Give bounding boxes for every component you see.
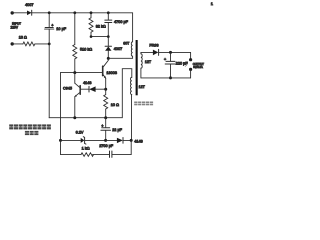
node C5 bottom: [169, 76, 172, 79]
node junction R1 top: [90, 11, 93, 14]
svg-text:510 kΩ: 510 kΩ: [80, 48, 92, 52]
capacitor C4 2700pF drive: [110, 140, 132, 157]
diode D2 1N4007 clamp: [105, 37, 111, 59]
svg-text:+: +: [164, 58, 166, 62]
wire bottom rail: [49, 69, 132, 118]
svg-text:4007: 4007: [114, 47, 122, 51]
node R4 bottom on rail: [104, 116, 107, 119]
resistor R2 510k startup: [73, 13, 77, 73]
label title caption glyph blocks line2: [25, 131, 38, 135]
svg-text:6.2V: 6.2V: [76, 131, 84, 135]
transformer T1 primary winding 60T: [131, 42, 132, 56]
resistor R1 13 ohm fusible: [12, 42, 49, 46]
svg-text:+: +: [101, 124, 103, 128]
wire output plus: [190, 52, 192, 59]
node output plus terminal: [189, 58, 192, 61]
svg-text:13003: 13003: [106, 71, 117, 75]
diode D5 FR93 output rectifier: [141, 49, 191, 55]
node junction C1 top: [48, 11, 51, 14]
node snubber left: [90, 35, 93, 38]
diode D4 1N4148 feedback rectifier: [106, 138, 132, 144]
svg-text:4007: 4007: [25, 3, 33, 7]
node collector / primary bottom: [107, 57, 110, 60]
capacitor C2 4700pF snubber: [105, 13, 112, 37]
transformer T1 feedback winding 12T: [131, 77, 132, 94]
transistor Q1 13003 switch: [103, 58, 109, 89]
svg-text:6V/0.5A: 6V/0.5A: [193, 65, 203, 69]
svg-text:C945: C945: [63, 86, 72, 90]
transistor Q2 C945 protection: [75, 73, 81, 118]
resistor R4 10 ohm sense: [104, 89, 108, 118]
label transformer name blocks: [134, 102, 153, 106]
node input neutral terminal: [11, 42, 14, 45]
capacitor C1 10uF electrolytic: [45, 13, 54, 44]
svg-text:12T: 12T: [139, 85, 146, 89]
svg-text:220V: 220V: [11, 25, 19, 29]
node M 22uF bottom: [104, 139, 107, 142]
node P feedback winding bottom: [130, 139, 133, 142]
svg-text:1 kΩ: 1 kΩ: [82, 147, 90, 151]
svg-text:4148: 4148: [83, 81, 91, 85]
svg-text:12T: 12T: [145, 60, 152, 64]
wire C1 down to bottom rail corner: [48, 44, 50, 118]
wire primary bottom to collector node: [108, 56, 132, 58]
svg-text:10 µF: 10 µF: [56, 27, 66, 31]
node L zener line left: [59, 139, 62, 142]
svg-text:1: 1: [211, 1, 214, 6]
label output rating: [193, 62, 204, 69]
wire output minus: [190, 70, 192, 78]
svg-text:10 Ω: 10 Ω: [111, 103, 119, 107]
capacitor C5 220uF output: [165, 52, 176, 78]
node junction C2 top: [107, 11, 110, 14]
label INPUT 220V: [11, 21, 22, 29]
wire feedback bottom down to node P: [131, 95, 133, 141]
zener diode ZD1 6.2V: [61, 137, 106, 144]
svg-text:22 µF: 22 µF: [112, 128, 122, 132]
svg-text:82 kΩ: 82 kΩ: [96, 24, 106, 28]
node junction R2 top: [73, 11, 76, 14]
node Q2 emitter on rail: [73, 116, 76, 119]
svg-text:60T: 60T: [123, 41, 130, 45]
node base junction 510k / Q2 collector: [73, 71, 76, 74]
node output minus terminal: [189, 68, 192, 71]
capacitor C3 22uF electrolytic: [101, 118, 111, 141]
wire snubber bottom joining R3 and C2: [91, 36, 108, 38]
node N emitter junction: [104, 88, 107, 91]
svg-text:4148: 4148: [134, 140, 142, 144]
transformer T1 secondary winding 12T: [141, 52, 142, 78]
svg-text:+: +: [51, 23, 53, 27]
node C5 top: [169, 51, 172, 54]
svg-text:4700 pF: 4700 pF: [114, 20, 129, 24]
label title caption glyph blocks line1: [9, 124, 51, 129]
node junction 13ohm / C1: [48, 43, 51, 46]
svg-text:FR93: FR93: [149, 43, 158, 47]
resistor R5 1k base drive: [61, 140, 110, 156]
transformer T1 core: [136, 40, 138, 95]
wire output bottom return: [141, 77, 191, 79]
wire top rail input to diode D1: [12, 12, 27, 14]
wire top rail corner down to primary top: [132, 13, 134, 42]
node snubber right: [107, 35, 110, 38]
svg-text:2700 pF: 2700 pF: [99, 144, 114, 148]
resistor R3 82k snubber: [89, 13, 93, 37]
diode D3 1N4148 to Q2 base: [80, 86, 106, 92]
wire top rail D1 to transformer primary corner: [32, 12, 133, 14]
wire base line of Q1: [61, 72, 103, 74]
svg-text:13 Ω: 13 Ω: [19, 35, 27, 39]
node input live terminal: [11, 11, 14, 14]
wire zener feed from base line down: [60, 73, 62, 141]
diode D1 1N4007 rectifier: [27, 10, 32, 15]
